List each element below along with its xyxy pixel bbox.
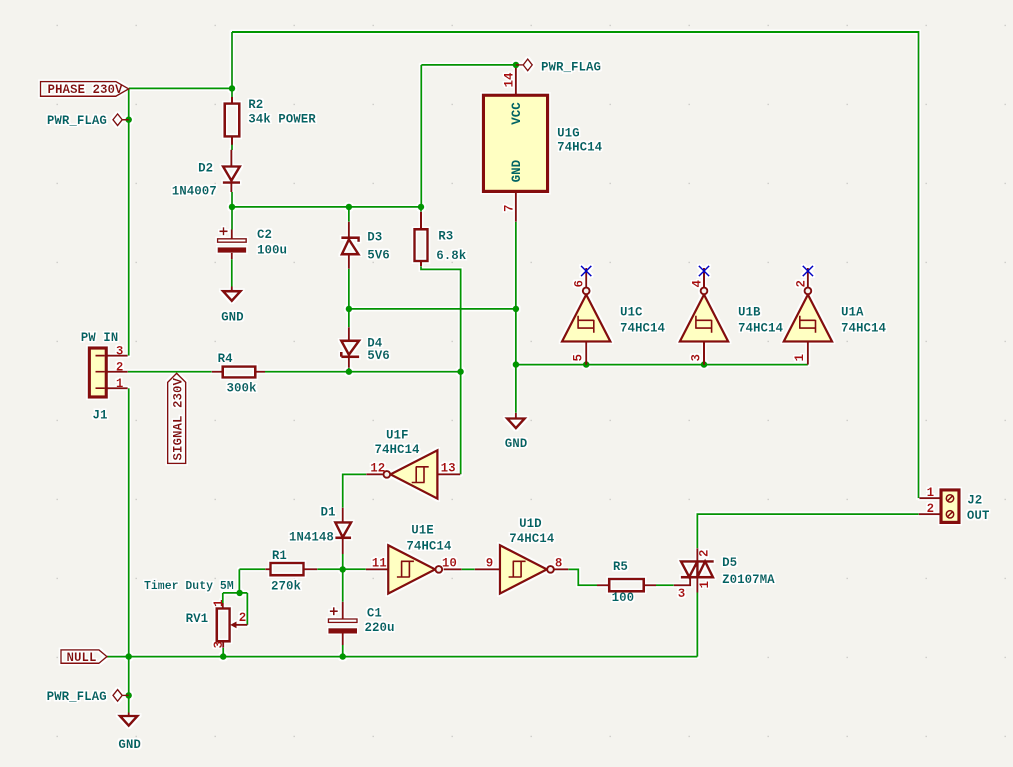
- wire: [656, 584, 674, 586]
- svg-text:300k: 300k: [227, 382, 258, 396]
- connector J1 PW IN: [81, 331, 128, 423]
- zener diode D3 5V6: [341, 222, 389, 269]
- svg-text:PW IN: PW IN: [81, 331, 119, 345]
- svg-text:J1: J1: [93, 409, 108, 423]
- zener diode D4 5V6: [341, 327, 389, 368]
- svg-text:2: 2: [794, 280, 808, 288]
- svg-text:C2: C2: [257, 228, 272, 242]
- resistor R3 6.8k: [415, 212, 467, 267]
- svg-text:6: 6: [573, 280, 587, 288]
- wire: [128, 371, 212, 373]
- junction: [229, 85, 236, 92]
- no-connect: [803, 266, 813, 276]
- wire: [421, 266, 461, 474]
- inverter gate U1B 74HC14: [680, 266, 784, 365]
- svg-text:U1D: U1D: [519, 517, 542, 531]
- triac D5 Z0107MA: [674, 548, 775, 601]
- wire: [232, 206, 421, 208]
- svg-text:3: 3: [212, 641, 226, 649]
- wire: [348, 207, 350, 222]
- junction: [339, 566, 346, 573]
- svg-text:R4: R4: [218, 352, 234, 366]
- wire: [349, 308, 516, 310]
- capacitor C1 220u: [328, 602, 394, 645]
- junction: [125, 653, 132, 660]
- wire: [246, 593, 248, 625]
- svg-text:U1F: U1F: [386, 429, 409, 443]
- junction: [513, 62, 520, 69]
- connector J2 OUT: [919, 486, 990, 523]
- inverter gate U1F 74HC14: [366, 429, 460, 499]
- svg-text:6.8k: 6.8k: [436, 249, 467, 263]
- svg-text:2: 2: [927, 502, 935, 516]
- junction: [583, 361, 590, 368]
- svg-text:D5: D5: [722, 556, 737, 570]
- global label SIGNAL 230V: [168, 373, 186, 463]
- wire: [231, 32, 233, 97]
- wire: [231, 137, 233, 150]
- wire: [696, 593, 698, 657]
- svg-text:9: 9: [486, 556, 494, 570]
- diode D2 1N4007: [172, 150, 240, 199]
- ground: [505, 413, 528, 451]
- svg-text:1: 1: [212, 599, 226, 607]
- svg-text:Z0107MA: Z0107MA: [722, 573, 775, 587]
- junction: [513, 361, 520, 368]
- resistor R5 100: [597, 560, 656, 605]
- wire: [568, 569, 597, 585]
- wire SIGNAL 230V net: [265, 371, 461, 373]
- svg-text:NULL: NULL: [67, 651, 97, 665]
- svg-text:4: 4: [691, 280, 705, 288]
- ground: [118, 713, 141, 753]
- inverter gate U1C 74HC14: [562, 266, 666, 365]
- wire: [462, 568, 475, 570]
- svg-text:14: 14: [503, 72, 517, 88]
- svg-text:U1G: U1G: [557, 126, 580, 140]
- wire: [516, 364, 808, 366]
- wire: [317, 568, 366, 570]
- op-amp U1G 74HC14 power unit: [483, 68, 602, 222]
- svg-text:11: 11: [372, 556, 387, 570]
- inverter gate U1D 74HC14: [475, 517, 569, 594]
- svg-text:10: 10: [442, 556, 457, 570]
- wire: [421, 64, 516, 66]
- junction: [457, 368, 464, 375]
- resistor R4 300k: [212, 352, 265, 396]
- power flag PWR_FLAG (top left): [47, 114, 129, 128]
- svg-text:8: 8: [555, 556, 563, 570]
- inverter gate U1E 74HC14: [366, 524, 462, 594]
- svg-text:D1: D1: [321, 506, 336, 520]
- junction: [346, 306, 353, 313]
- junction: [125, 116, 132, 123]
- svg-text:U1B: U1B: [738, 306, 761, 320]
- svg-text:U1E: U1E: [411, 524, 434, 538]
- svg-text:U1C: U1C: [620, 306, 643, 320]
- wire: [348, 368, 350, 372]
- svg-text:1N4007: 1N4007: [172, 185, 217, 199]
- svg-text:VCC: VCC: [510, 102, 524, 125]
- wire: [342, 645, 344, 657]
- junction: [513, 306, 520, 313]
- junction: [339, 653, 346, 660]
- power flag PWR_FLAG (bottom left): [47, 690, 129, 705]
- wire: [128, 88, 130, 355]
- wire: [239, 568, 265, 570]
- resistor R1 270k: [265, 549, 317, 593]
- wire: [420, 65, 422, 207]
- svg-text:GND: GND: [505, 437, 528, 451]
- svg-text:D2: D2: [198, 162, 213, 176]
- wire: [342, 554, 344, 602]
- wire: [348, 269, 350, 327]
- svg-text:Timer Duty 5M: Timer Duty 5M: [144, 580, 234, 593]
- svg-text:OUT: OUT: [967, 509, 990, 523]
- wire: [420, 207, 422, 212]
- potentiometer RV1 Timer Duty 5M: [144, 580, 247, 649]
- svg-text:PWR_FLAG: PWR_FLAG: [47, 114, 107, 128]
- svg-text:74HC14: 74HC14: [406, 539, 452, 553]
- ground: [221, 287, 244, 325]
- svg-text:5V6: 5V6: [367, 349, 390, 363]
- no-connect: [699, 266, 709, 276]
- inverter gate U1A 74HC14: [784, 266, 887, 365]
- svg-text:1: 1: [793, 354, 807, 362]
- svg-text:74HC14: 74HC14: [557, 140, 603, 154]
- junction: [125, 692, 132, 699]
- svg-text:100u: 100u: [257, 244, 287, 258]
- wire: [238, 569, 240, 593]
- svg-text:J2: J2: [967, 494, 982, 508]
- svg-text:R2: R2: [248, 98, 263, 112]
- junction: [701, 361, 708, 368]
- junction: [229, 204, 236, 211]
- svg-text:7: 7: [503, 204, 517, 212]
- wire: [231, 192, 233, 230]
- svg-text:1: 1: [927, 486, 935, 500]
- wire: [222, 593, 224, 603]
- svg-text:3: 3: [689, 354, 703, 362]
- svg-text:D3: D3: [367, 231, 382, 245]
- global label PHASE 230V: [41, 82, 129, 98]
- svg-text:C1: C1: [367, 606, 382, 620]
- junction: [346, 204, 353, 211]
- wire: [515, 222, 517, 413]
- capacitor C2 100u: [218, 227, 287, 259]
- wire: [515, 66, 517, 69]
- svg-text:1: 1: [116, 377, 124, 391]
- svg-text:34k POWER: 34k POWER: [248, 113, 316, 127]
- svg-text:GND: GND: [118, 738, 141, 752]
- svg-text:13: 13: [441, 462, 456, 476]
- junction: [220, 653, 227, 660]
- svg-text:5: 5: [572, 354, 586, 362]
- wire: [222, 648, 224, 657]
- svg-text:RV1: RV1: [186, 612, 209, 626]
- svg-text:74HC14: 74HC14: [620, 322, 666, 336]
- svg-text:U1A: U1A: [841, 306, 864, 320]
- junction: [346, 368, 353, 375]
- svg-text:74HC14: 74HC14: [509, 532, 555, 546]
- svg-text:12: 12: [370, 462, 385, 476]
- wire: [697, 514, 918, 548]
- wire: [128, 388, 130, 657]
- no-connect: [581, 266, 591, 276]
- wire: [231, 259, 233, 286]
- svg-text:GND: GND: [221, 311, 244, 325]
- svg-text:PWR_FLAG: PWR_FLAG: [47, 690, 107, 704]
- svg-text:220u: 220u: [365, 621, 395, 635]
- global label NULL: [61, 650, 107, 665]
- diode D1 1N4148: [289, 506, 351, 555]
- svg-text:100: 100: [612, 591, 635, 605]
- svg-text:R1: R1: [272, 549, 287, 563]
- svg-text:270k: 270k: [271, 579, 302, 593]
- power flag PWR_FLAG (top middle): [516, 59, 601, 74]
- svg-text:3: 3: [678, 587, 686, 601]
- resistor R2: [225, 97, 317, 145]
- svg-text:74HC14: 74HC14: [841, 322, 887, 336]
- svg-text:2: 2: [116, 361, 124, 375]
- svg-text:R5: R5: [613, 560, 628, 574]
- svg-text:PHASE 230V: PHASE 230V: [48, 83, 124, 97]
- svg-text:5V6: 5V6: [367, 249, 390, 263]
- svg-text:3: 3: [116, 345, 124, 359]
- svg-text:SIGNAL 230V: SIGNAL 230V: [172, 377, 186, 460]
- wire: [223, 592, 248, 594]
- svg-text:74HC14: 74HC14: [375, 443, 421, 457]
- wire: [128, 657, 130, 713]
- svg-text:2: 2: [698, 549, 712, 557]
- junction: [418, 204, 425, 211]
- wire: [129, 87, 232, 89]
- wire: [232, 32, 919, 498]
- svg-text:GND: GND: [510, 159, 524, 182]
- svg-text:1: 1: [698, 581, 712, 589]
- svg-text:R3: R3: [438, 229, 453, 243]
- svg-text:PWR_FLAG: PWR_FLAG: [541, 61, 601, 75]
- svg-text:2: 2: [239, 611, 247, 625]
- junction: [236, 590, 243, 597]
- svg-text:74HC14: 74HC14: [738, 322, 784, 336]
- wire NULL net: [107, 656, 697, 658]
- wire: [343, 474, 367, 507]
- svg-text:1N4148: 1N4148: [289, 531, 334, 545]
